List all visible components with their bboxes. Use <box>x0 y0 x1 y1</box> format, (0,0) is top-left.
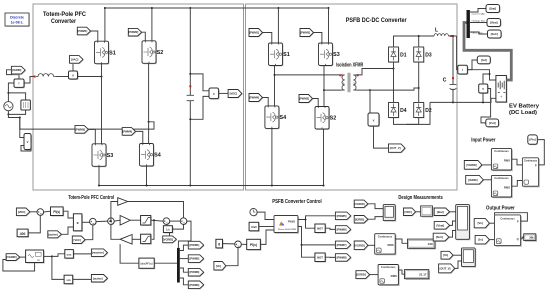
svg-text:S3: S3 <box>107 153 114 159</box>
from tag VGRID (input power) <box>465 161 483 170</box>
svg-text:S4: S4 <box>280 115 287 121</box>
goto tag PWM4 (PSFB) <box>250 94 263 102</box>
node rectifier left midpoint <box>393 68 395 70</box>
goto tag PWM2 out <box>189 256 204 264</box>
wire AC return to leg B midpoint <box>8 114 19 117</box>
wire Vo to scope4 <box>453 254 462 256</box>
MOSFET S1 (PFC) <box>95 42 109 65</box>
node PSFB leg B midpoint <box>323 89 325 91</box>
wire to VAC goto <box>72 63 74 71</box>
MOSFET S1 (PSFB) <box>269 44 283 67</box>
wire VM to OUT_V goto <box>374 126 389 148</box>
svg-text:[IGRID]: [IGRID] <box>355 217 364 221</box>
svg-text:EV Battery: EV Battery <box>509 103 540 109</box>
MATLAB function block abs <box>120 244 139 263</box>
node C1 bottom tap <box>189 118 191 120</box>
PI controller PI(s) PSFB <box>248 240 262 250</box>
wire VM to Vsd goto <box>481 89 491 123</box>
wires fn output 2 to PWM7/PWM8 <box>298 227 336 245</box>
svg-text:[VDC]: [VDC] <box>404 210 412 214</box>
sum junction 3 <box>108 219 115 226</box>
wire PWM2 to S2 gate <box>142 32 146 41</box>
svg-text:[IGRID]: [IGRID] <box>357 273 366 277</box>
svg-text:PWM2: PWM2 <box>288 221 296 224</box>
annotation box Totem-Pole PFC Converter region <box>33 4 244 190</box>
isolation transformer T1 <box>342 75 345 90</box>
wire i2 to Isd goto <box>467 60 477 70</box>
goto tag Vsd <box>487 120 500 128</box>
wire VGRID to RMS1 <box>482 164 492 166</box>
wire secondary to output VM <box>369 90 371 113</box>
wire VDC to sum1 <box>30 211 37 213</box>
voltage measurement VAC block <box>70 72 79 80</box>
svg-text:[VAC]: [VAC] <box>71 57 78 61</box>
goto tag OUT_V <box>389 145 406 153</box>
svg-text:PSFB Converter Control: PSFB Converter Control <box>272 199 322 205</box>
svg-text:v: v <box>482 87 484 91</box>
svg-text:21.17: 21.17 <box>419 272 427 276</box>
wire PWM3 to S3 gate (PSFB) <box>314 33 322 44</box>
diode D4 <box>389 103 399 118</box>
wire Ibat to scope3 <box>450 211 456 213</box>
svg-text:RMS: RMS <box>504 185 510 189</box>
svg-text:[PWM8]: [PWM8] <box>337 255 347 259</box>
wire SoC to scope3 <box>449 231 456 238</box>
svg-text:Q: Q <box>517 237 519 241</box>
DC link capacitor C1 <box>189 8 191 95</box>
svg-text:D2: D2 <box>425 108 432 114</box>
from tag VGRID (scope) <box>355 201 369 209</box>
wire clock to fn <box>257 212 274 219</box>
wire bus to Ibat <box>470 9 486 13</box>
scope output voltage <box>463 249 477 268</box>
scope battery measurements <box>457 206 471 241</box>
voltage measurement VDC block <box>210 89 220 100</box>
svg-text:S1: S1 <box>283 52 290 58</box>
svg-text:1e-08 s.: 1e-08 s. <box>11 21 24 25</box>
MOSFET S2 (PSFB) <box>316 107 330 129</box>
goto tag PWM1 (PFC) <box>78 28 91 36</box>
powergui Discrete block <box>6 14 30 27</box>
svg-text:[PWM5]: [PWM5] <box>337 214 347 218</box>
node rectifier right midpoint <box>418 87 420 89</box>
MATLAB function block phase-shift PWM <box>275 217 299 234</box>
svg-text:[Vo]: [Vo] <box>216 264 221 268</box>
goto tag IGRID <box>12 67 26 75</box>
scope grid waveforms <box>384 206 396 222</box>
svg-text:Continuous: Continuous <box>500 216 515 220</box>
svg-text:D4: D4 <box>400 108 407 114</box>
wire rectifier right leg vertical <box>418 62 420 103</box>
EV battery block <box>497 77 508 104</box>
svg-text:[OUT_V]: [OUT_V] <box>440 266 451 270</box>
RMS block U-RMS2 <box>493 177 513 199</box>
svg-text:[PWM6]: [PWM6] <box>337 227 347 231</box>
svg-text:NOT: NOT <box>317 255 323 259</box>
wire RMS2 to product <box>512 181 523 187</box>
wire RMS1 to product <box>512 159 523 165</box>
wire PSFB S1 drain to DC+ rail <box>277 8 279 43</box>
wire rectifier top rail to filter inductor <box>394 36 435 47</box>
battery voltage measurement block <box>480 85 489 94</box>
svg-text:[VDC]: [VDC] <box>230 92 238 96</box>
wire to sat2 <box>151 220 154 239</box>
goto tag VDC <box>229 90 243 98</box>
AC grid source V1 <box>4 102 13 111</box>
svg-text:Continuous: Continuous <box>524 160 538 163</box>
svg-text:[VGRID]: [VGRID] <box>354 243 364 247</box>
goto tag PWM5 <box>336 213 351 221</box>
svg-text:sin: sin <box>66 278 70 282</box>
wire S4 to DC- bus <box>146 166 148 186</box>
svg-text:Phase-Shift PWM: Phase-Shift PWM <box>278 228 296 231</box>
wire VGRID to scope1 <box>368 204 383 209</box>
wire VGRID to delay <box>169 233 171 236</box>
from tag VGRID (pll) <box>7 255 21 262</box>
svg-text:[IGRID]: [IGRID] <box>468 178 477 182</box>
svg-text:RMS: RMS <box>391 274 397 278</box>
RMS block grid voltage <box>376 235 397 255</box>
display 21.17 <box>406 271 430 280</box>
svg-text:[PWM2]: [PWM2] <box>189 257 199 261</box>
from tag Vo (output power) <box>475 219 490 228</box>
goto tag active <box>92 275 108 283</box>
wire AC- to node <box>7 111 9 115</box>
gain current loop <box>120 216 130 226</box>
wire C1 bottom tap to VM <box>190 96 209 119</box>
small display VDC <box>422 207 434 217</box>
wire VGRID to PLL <box>20 256 26 258</box>
wire PI to product <box>63 211 73 218</box>
svg-text:1/z: 1/z <box>166 228 170 232</box>
sum junction 5 <box>181 219 188 226</box>
PI controller PI(s) voltage loop <box>52 208 65 217</box>
constant block 10e6 <box>250 223 260 232</box>
wire Vo to sum6 <box>226 248 238 266</box>
red marker transformer primary <box>339 74 341 76</box>
svg-text:S2: S2 <box>330 116 337 122</box>
goto tag Ibat <box>487 5 501 13</box>
annotation box PSFB DC-DC Converter region <box>246 4 458 190</box>
wire sin to active goto <box>73 278 92 280</box>
svg-text:(abs(PF)-u): (abs(PF)-u) <box>140 264 152 266</box>
red measurement marker at inductor <box>34 76 36 78</box>
NOT block 2 <box>316 254 326 263</box>
from tag active (control) <box>49 232 63 239</box>
red marker on C <box>452 77 454 79</box>
node AC+ <box>7 92 9 94</box>
wire sum4 to sum5 <box>170 220 181 222</box>
wire S1 source to S3 drain (leg A) <box>101 64 103 144</box>
svg-text:[reactive]: [reactive] <box>92 251 104 255</box>
svg-text:[VAC]: [VAC] <box>74 238 81 242</box>
node PSFB leg A midpoint <box>274 74 276 76</box>
display 129 <box>409 240 436 249</box>
thick measurement bus from battery to bus selector <box>464 23 511 81</box>
wire 400 to sum1 <box>28 215 40 233</box>
wire inductor to VAC sensor block <box>56 76 69 78</box>
from tag OUT_V (measure) <box>439 265 455 274</box>
goto tag PWM2 (PFC) <box>129 29 142 37</box>
goto tag PWM1 (PSFB) <box>250 29 263 37</box>
wire PWM3 to S3 gate <box>88 129 95 143</box>
red marker after L <box>450 35 452 37</box>
wire AC+ to node <box>7 93 9 102</box>
svg-text:C: C <box>443 78 447 84</box>
wire leg A midpoint to transformer primary dot <box>275 74 342 76</box>
from tag VDC (control) <box>17 209 31 217</box>
wire sat1 to sum4 <box>151 219 163 222</box>
svg-text:[VGRID]: [VGRID] <box>354 202 364 206</box>
svg-text:v: v <box>213 92 215 96</box>
wire VAC to sum2 <box>85 225 93 240</box>
svg-text:[Vo]: [Vo] <box>443 253 448 257</box>
wire PLL feedback loop <box>3 260 35 272</box>
MOSFET S2 (PFC) <box>143 42 157 64</box>
wire VM tap to battery+ <box>483 74 490 84</box>
svg-text:v: v <box>72 73 74 77</box>
from tag SoC (measure) <box>434 234 450 242</box>
svg-text:[Ibat]: [Ibat] <box>437 210 444 214</box>
wire product to sum2 <box>82 221 90 223</box>
wire abs to demux <box>154 262 177 264</box>
svg-text:[PWM4]: [PWM4] <box>249 96 259 100</box>
gain feedback (pointing left) <box>132 238 141 240</box>
svg-text:v: v <box>373 119 375 123</box>
svg-text:[PWM2]: [PWM2] <box>128 30 138 34</box>
battery current measurement i2 <box>459 66 469 75</box>
wire transformer secondary top to rectifier left leg <box>357 69 394 75</box>
wire PSFB S2 to DC- bus <box>323 129 325 186</box>
DC- bus wire <box>99 185 324 187</box>
svg-text:S2: S2 <box>157 50 164 56</box>
svg-text:(DC Load): (DC Load) <box>509 110 537 116</box>
wire sensor to leg A midpoint <box>78 76 102 78</box>
goto tag PWM3 out <box>189 269 204 277</box>
sum junction 2 <box>90 219 97 226</box>
svg-text:Output Power: Output Power <box>486 205 515 211</box>
wires fn output 1 to PWM5/PWM6 <box>298 216 336 220</box>
wire rectifier left leg vertical <box>393 62 395 103</box>
goto tag Pin <box>529 136 539 145</box>
cos block <box>66 251 75 260</box>
wire Io to product <box>489 239 494 241</box>
node filter cap top <box>452 35 454 37</box>
from tag Vbat (measure) <box>435 222 450 230</box>
node C1 top tap <box>189 73 191 75</box>
svg-text:[active]: [active] <box>93 276 103 280</box>
wire PWM2 to S2 gate (PSFB) <box>313 99 319 107</box>
svg-text:[SoC]: [SoC] <box>436 235 443 239</box>
filter inductor L <box>434 34 448 36</box>
svg-text:P: P <box>517 219 519 223</box>
svg-text:<Current (A)>: <Current (A)> <box>471 13 486 16</box>
from tag Io (output power) <box>476 236 490 245</box>
wire gain to saturation <box>130 219 140 221</box>
display output power <box>525 235 537 242</box>
from tag Vo (psfb control) <box>215 262 227 271</box>
svg-text:Continuous: Continuous <box>381 265 396 269</box>
svg-text:D1: D1 <box>400 53 407 59</box>
svg-text:v: v <box>27 140 29 144</box>
svg-text:[Vbat]: [Vbat] <box>490 21 498 25</box>
red marker transformer secondary <box>357 74 359 76</box>
wire PWM4 to S4 gate <box>136 131 143 143</box>
goto tag SoC <box>488 31 502 39</box>
svg-text:8: 8 <box>218 242 220 246</box>
wire gain top to sum5 <box>128 202 184 218</box>
wire product P to Pin goto <box>537 140 544 165</box>
svg-text:[PWM3]: [PWM3] <box>75 127 85 131</box>
svg-text:PSFB DC-DC Converter: PSFB DC-DC Converter <box>346 17 408 24</box>
wire cos to reactive goto <box>73 253 91 255</box>
svg-text:cos: cos <box>67 252 72 256</box>
wire Vgrid loop <box>21 142 31 152</box>
wire wt to sin <box>52 256 64 279</box>
NOT block 1 <box>316 225 326 234</box>
wire bus to Vbat <box>470 22 487 24</box>
svg-text:Isolation XFMR: Isolation XFMR <box>336 62 363 68</box>
svg-text:10e6: 10e6 <box>251 226 257 229</box>
sum junction 6 (PSFB) <box>235 242 242 249</box>
sum junction 1 <box>38 209 45 216</box>
wire sum3 to gain Kp <box>114 219 120 222</box>
from tag Ibat (measure) <box>435 209 450 217</box>
from tag IGRID (input power) <box>467 176 485 185</box>
sum junction 4 <box>164 219 171 226</box>
wire S3 to DC- bus <box>98 166 100 185</box>
output voltage measurement block <box>369 114 380 127</box>
goto tag PWM6 <box>336 227 351 235</box>
svg-text:[OUT_V]: [OUT_V] <box>390 146 401 150</box>
wire output return bus <box>430 101 453 103</box>
MOSFET S4 (PSFB) <box>266 107 280 130</box>
svg-text:L: L <box>435 28 438 34</box>
wire PI to fn phase input <box>260 230 274 244</box>
wire PWM4 to S4 gate (PSFB) <box>263 98 269 106</box>
wire Vbat to scope3 <box>450 221 456 225</box>
red marker on C1 <box>189 85 191 87</box>
product block input power <box>524 159 540 187</box>
diode D3 <box>415 48 425 63</box>
from tag VGRID (rms) <box>355 242 369 251</box>
wire output node to battery current sensor <box>457 36 458 70</box>
svg-text:[PWM1]: [PWM1] <box>189 243 199 247</box>
MOSFET S4 (PFC) <box>140 144 154 167</box>
svg-text:400: 400 <box>20 232 26 236</box>
node AC- <box>7 113 9 115</box>
wire P feedback loop <box>495 213 528 221</box>
goto tag VAC <box>70 56 84 64</box>
PLL block <box>27 251 45 264</box>
from tag VAC (control) <box>73 237 86 245</box>
product block X current ref <box>74 215 83 232</box>
from tag Vo (measure) <box>442 252 454 260</box>
wire RMS4 to display <box>398 270 404 274</box>
svg-text:[active]: [active] <box>48 232 58 236</box>
node PLL wt <box>51 255 53 257</box>
svg-text:[Vbat]: [Vbat] <box>436 223 444 227</box>
svg-text:[PWM4]: [PWM4] <box>122 129 132 133</box>
wire rectifier bottom to output return <box>406 102 430 124</box>
RMS block U-RMS1 <box>493 150 513 172</box>
RMS block grid current <box>379 266 399 286</box>
goto tag Isd <box>478 57 491 65</box>
unit delay block <box>164 227 173 234</box>
wire IGRID to RMS4 <box>370 274 379 276</box>
goto tag PWM4 (PFC) <box>123 128 136 136</box>
wire NOT1 to PWM6 <box>325 228 335 229</box>
svg-text:[PWM2]: [PWM2] <box>299 97 309 101</box>
svg-text:30k: 30k <box>529 235 534 239</box>
wire PWM1 to S1 gate (PSFB) <box>263 33 272 44</box>
svg-text:Continuous: Continuous <box>378 234 393 238</box>
wire VM to VDC goto <box>219 92 229 94</box>
goto tag PWM1 out <box>189 242 204 250</box>
wire PSFB leg A S1 source to S4 drain <box>274 66 276 106</box>
wire sum2 to sum3 <box>96 220 108 223</box>
wire PWM1 to S1 gate <box>91 31 98 41</box>
wire PSFB leg B S3 source to S2 drain <box>323 66 325 107</box>
DC+ rail wire <box>105 7 329 9</box>
wire leg B midpoint to transformer primary bottom <box>324 89 342 91</box>
snubber block body <box>21 100 31 110</box>
wire active to product <box>61 227 73 234</box>
gain feedforward (top) <box>111 202 118 222</box>
svg-text:[VGRID]: [VGRID] <box>466 163 476 167</box>
wire L to output node <box>448 35 456 37</box>
svg-text:RMS: RMS <box>387 243 393 247</box>
svg-text:NOT: NOT <box>317 226 323 230</box>
svg-text:[PWM7]: [PWM7] <box>337 243 347 247</box>
wires demux to PWM goto tags <box>180 245 189 250</box>
wire transformer secondary bottom toward rectifier right leg <box>357 89 371 91</box>
svg-text:P: P <box>535 163 537 167</box>
wire delay to sum5 <box>172 224 183 229</box>
svg-text:i: i <box>19 82 20 86</box>
wire S1 drain to DC+ rail <box>104 8 106 41</box>
svg-text:Discrete: Discrete <box>10 16 24 20</box>
goto tag reactive <box>92 250 108 258</box>
wire VM tap to battery- <box>482 93 484 102</box>
wire OUT_V to scope4 <box>455 261 462 268</box>
wire i2 to battery positive <box>467 70 496 80</box>
wire PLL output <box>44 255 52 257</box>
wire 10e6 to fn <box>259 226 274 228</box>
from tag VDC (measure) <box>404 209 416 217</box>
wire rectifier bottom rail <box>394 118 419 125</box>
MOSFET S3 (PSFB) <box>319 44 333 67</box>
wire S2 drain to DC+ rail <box>151 8 153 41</box>
goto tag PWM8 <box>336 255 351 263</box>
svg-text:Design Measurements: Design Measurements <box>398 195 442 201</box>
wire sensor i1 to IGRID goto <box>7 70 20 79</box>
wire C1 top tap to VM <box>190 74 209 91</box>
svg-text:+: + <box>500 95 502 99</box>
MOSFET S3 (PFC) <box>93 145 107 168</box>
svg-text:RMS: RMS <box>504 158 510 162</box>
grid voltage measurement block Vgrid <box>25 135 32 151</box>
svg-text:[VGRID]: [VGRID] <box>6 255 16 259</box>
svg-text:S3: S3 <box>333 52 340 58</box>
wire NOT2 to PWM8 <box>325 256 335 258</box>
node leg B midpoint <box>148 121 150 123</box>
wire gain fb to sum3 <box>111 224 120 239</box>
svg-text:[PWM3]: [PWM3] <box>189 270 199 274</box>
wire Q to display <box>521 237 524 239</box>
demux bar PWM signals <box>177 248 180 283</box>
saturation block 1 <box>142 217 152 227</box>
